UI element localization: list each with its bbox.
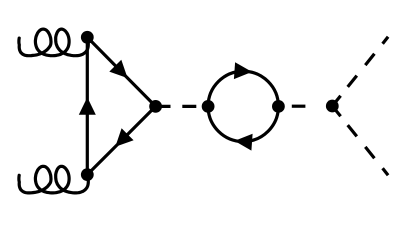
- vertex dot v3 (triangle right): [149, 100, 162, 113]
- arrow on bottom of loop (pointing left): [235, 134, 253, 151]
- fermion loop circle: [208, 71, 278, 141]
- quark line q2 (top vertex to right triangle vertex): [87, 37, 155, 106]
- arrow on q2 (pointing down-right): [109, 60, 127, 78]
- vertex dot v5 (loop right): [272, 100, 285, 113]
- scalar external leg dashes (upper right): [332, 37, 388, 106]
- gluon line G2 (bottom left, curly): [19, 166, 88, 193]
- vertex dot v2 (bottom left): [81, 168, 94, 181]
- gluon line G1 (top left, curly): [19, 29, 88, 56]
- arrow on top of loop (pointing right): [234, 62, 252, 79]
- vertex dot v4 (loop left): [202, 100, 215, 113]
- arrow on q3 (pointing down-left): [115, 128, 133, 146]
- quark line q1 (bottom vertex to top vertex): [86, 37, 89, 174]
- vertex dot v1 (top left): [81, 31, 94, 44]
- scalar propagator S2 dash (loop to right vertex): [292, 105, 306, 108]
- scalar propagator S1 dashes (triangle vertex to loop): [162, 105, 197, 108]
- vertex dot v6 (right, scalar splitting): [326, 100, 339, 113]
- quark line q3 (right triangle vertex to bottom vertex): [87, 106, 155, 174]
- arrow on q1 (pointing up): [79, 97, 96, 115]
- scalar external leg dashes (lower right): [332, 106, 388, 175]
